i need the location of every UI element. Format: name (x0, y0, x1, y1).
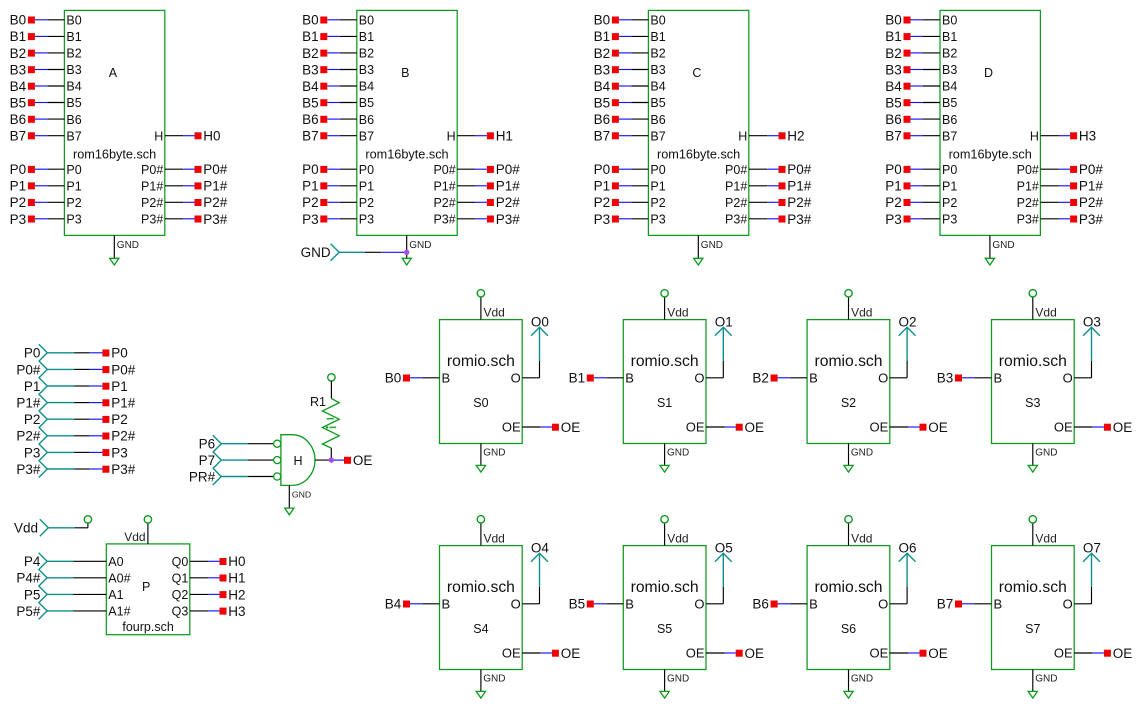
svg-text:B1: B1 (885, 29, 902, 44)
svg-text:Vdd: Vdd (667, 532, 688, 546)
Vdd symbol above block S1 (661, 290, 689, 320)
svg-text:O2: O2 (898, 315, 916, 330)
svg-text:C: C (692, 66, 701, 80)
svg-text:S1: S1 (657, 396, 672, 410)
svg-text:OE: OE (502, 646, 521, 661)
svg-text:B2: B2 (650, 47, 665, 61)
svg-text:romio.sch: romio.sch (631, 579, 699, 596)
svg-text:B: B (994, 597, 1003, 612)
net B4 into D: cue + wire into pin B4 (885, 79, 940, 94)
svg-text:OE: OE (745, 420, 765, 435)
net O3: output arrow from S3 (1074, 315, 1101, 378)
ground symbol below block S3 (1028, 444, 1057, 473)
svg-text:P3#: P3# (725, 213, 747, 227)
subcircuit block S3 (romio.sch) body (992, 320, 1075, 444)
net B3 into S3: cue + wire into pin B3 (937, 371, 992, 386)
svg-text:P1#: P1# (725, 179, 747, 193)
net P3 into D: cue + wire into pin P3 (885, 212, 940, 227)
net H1 out of B: pin wire + cue + label H1 (457, 129, 513, 144)
svg-text:H: H (738, 129, 747, 143)
svg-text:B0: B0 (359, 14, 374, 28)
net B3 into B: cue + wire into pin B3 (302, 62, 357, 77)
svg-text:P1#: P1# (1017, 179, 1039, 193)
svg-text:P2#: P2# (787, 195, 812, 210)
resistor R1 (310, 395, 339, 448)
svg-text:B7: B7 (650, 129, 665, 143)
net B3 into A: cue + wire into pin B3 (10, 62, 65, 77)
net B6 into B: cue + wire into pin B6 (302, 112, 357, 127)
subcircuit block C (rom16byte.sch) body (648, 10, 748, 235)
svg-text:H2: H2 (228, 587, 245, 602)
svg-text:P3#: P3# (496, 212, 521, 227)
svg-text:H0: H0 (228, 554, 245, 569)
svg-text:GND: GND (667, 448, 689, 459)
svg-text:P3#: P3# (787, 212, 812, 227)
svg-text:B7: B7 (302, 129, 319, 144)
Vdd symbol above R1 (328, 374, 335, 399)
net P1 into D: cue + wire into pin P1 (885, 179, 940, 194)
svg-text:H1: H1 (228, 571, 245, 586)
svg-text:P1: P1 (111, 379, 128, 394)
svg-text:H: H (293, 454, 302, 468)
net OE into S7: pin wire + cue + label OE (1074, 646, 1132, 661)
net H3 from block P: pin wire + cue + label H3 (190, 604, 246, 619)
svg-text:B6: B6 (10, 112, 27, 127)
Vdd symbol above block S0 (477, 290, 505, 320)
svg-text:B1: B1 (302, 29, 319, 44)
subcircuit block A (rom16byte.sch) body (64, 10, 164, 235)
svg-text:P3: P3 (942, 213, 957, 227)
net OE into S2: pin wire + cue + label OE (890, 420, 948, 435)
net P3 into C: cue + wire into pin P3 (594, 212, 649, 227)
net OE into S0: pin wire + cue + label OE (522, 420, 580, 435)
svg-text:GND: GND (701, 240, 723, 251)
svg-text:romio.sch: romio.sch (815, 579, 883, 596)
svg-text:O3: O3 (1083, 315, 1101, 330)
port P5# into block P (16, 602, 106, 619)
svg-text:P1: P1 (10, 179, 27, 194)
svg-text:H2: H2 (787, 129, 804, 144)
svg-text:B7: B7 (66, 129, 81, 143)
net OE into S3: pin wire + cue + label OE (1074, 420, 1132, 435)
svg-text:OE: OE (928, 420, 948, 435)
svg-text:B1: B1 (594, 29, 611, 44)
svg-text:P3: P3 (594, 212, 611, 227)
net B6 into D: cue + wire into pin B6 (885, 112, 940, 127)
net B2 into S2: cue + wire into pin B2 (752, 371, 807, 386)
net P1 into C: cue + wire into pin P1 (594, 179, 649, 194)
svg-text:A: A (109, 66, 118, 80)
svg-text:H0: H0 (203, 129, 220, 144)
svg-text:B6: B6 (66, 113, 81, 127)
svg-text:B: B (401, 66, 409, 80)
svg-text:P1#: P1# (203, 179, 228, 194)
svg-text:B2: B2 (752, 371, 769, 386)
output port P1# with net stub and cue (16, 394, 135, 411)
svg-text:P1#: P1# (787, 179, 812, 194)
port PR# into gate H (189, 468, 273, 485)
net O0: output arrow from S0 (522, 315, 549, 378)
ground symbol below block S2 (844, 444, 873, 473)
svg-text:P0#: P0# (787, 162, 812, 177)
svg-text:B6: B6 (650, 113, 665, 127)
net P1 into A: cue + wire into pin P1 (10, 179, 65, 194)
svg-text:B2: B2 (359, 47, 374, 61)
svg-text:Vdd: Vdd (851, 532, 872, 546)
subcircuit block D (rom16byte.sch) body (940, 10, 1040, 235)
svg-text:B0: B0 (650, 14, 665, 28)
net P0 into D: cue + wire into pin P0 (885, 162, 940, 177)
svg-text:O: O (694, 371, 704, 386)
svg-text:B7: B7 (942, 129, 957, 143)
net B0 into B: cue + wire into pin B0 (302, 13, 357, 28)
svg-text:P3#: P3# (111, 462, 136, 477)
svg-text:Vdd: Vdd (1035, 306, 1056, 320)
svg-text:GND: GND (1035, 448, 1057, 459)
net P1 into B: cue + wire into pin P1 (302, 179, 357, 194)
svg-text:P1#: P1# (16, 396, 41, 411)
net H0 from block P: pin wire + cue + label H0 (190, 554, 246, 569)
svg-text:P3#: P3# (433, 213, 455, 227)
svg-text:S3: S3 (1025, 396, 1040, 410)
net O6: output arrow from S6 (890, 541, 917, 604)
svg-text:P3#: P3# (141, 213, 163, 227)
net P2# out of A: pin wire + cue + label P2# (165, 195, 228, 210)
svg-text:B3: B3 (302, 62, 319, 77)
svg-text:P0#: P0# (1079, 162, 1104, 177)
svg-text:R1: R1 (310, 395, 326, 409)
net P2# out of C: pin wire + cue + label P2# (749, 195, 812, 210)
svg-text:B3: B3 (942, 63, 957, 77)
svg-text:B2: B2 (594, 46, 611, 61)
svg-text:P3: P3 (650, 213, 665, 227)
svg-text:OE: OE (502, 420, 521, 435)
svg-text:P1#: P1# (111, 396, 136, 411)
svg-text:P2: P2 (359, 196, 374, 210)
svg-text:rom16byte.sch: rom16byte.sch (365, 148, 448, 162)
net B6 into S6: cue + wire into pin B6 (752, 597, 807, 612)
net P2 into A: cue + wire into pin P2 (10, 195, 65, 210)
svg-text:P5#: P5# (16, 604, 41, 619)
svg-text:B6: B6 (359, 113, 374, 127)
svg-text:P1#: P1# (496, 179, 521, 194)
svg-text:O: O (878, 597, 888, 612)
net B1 into C: cue + wire into pin B1 (594, 29, 649, 44)
net H2 out of C: pin wire + cue + label H2 (749, 129, 805, 144)
svg-text:P0: P0 (359, 163, 374, 177)
svg-text:P2: P2 (942, 196, 957, 210)
svg-text:B: B (442, 371, 451, 386)
ground symbol below block S7 (1028, 670, 1057, 699)
net B0 into A: cue + wire into pin B0 (10, 13, 65, 28)
net B5 into C: cue + wire into pin B5 (594, 96, 649, 111)
svg-text:B4: B4 (650, 80, 665, 94)
svg-text:H: H (1030, 129, 1039, 143)
svg-text:P2#: P2# (725, 196, 747, 210)
svg-text:OE: OE (561, 646, 581, 661)
svg-text:B3: B3 (937, 371, 954, 386)
svg-text:P1#: P1# (1079, 179, 1104, 194)
svg-text:P2#: P2# (433, 196, 455, 210)
net P3# out of B: pin wire + cue + label P3# (457, 212, 520, 227)
svg-text:P2: P2 (302, 195, 319, 210)
net B4 into C: cue + wire into pin B4 (594, 79, 649, 94)
svg-text:Vdd: Vdd (484, 532, 505, 546)
svg-text:P0: P0 (942, 163, 957, 177)
net B7 into A: cue + wire into pin B7 (10, 129, 65, 144)
net OE into S6: pin wire + cue + label OE (890, 646, 948, 661)
Vdd symbol above block S6 (845, 516, 873, 546)
net OE into S4: pin wire + cue + label OE (522, 646, 580, 661)
svg-text:B3: B3 (10, 62, 27, 77)
svg-text:B0: B0 (302, 13, 319, 28)
svg-text:B7: B7 (885, 129, 902, 144)
svg-text:B5: B5 (594, 96, 611, 111)
svg-text:B0: B0 (385, 371, 402, 386)
net B0 into D: cue + wire into pin B0 (885, 13, 940, 28)
svg-text:H3: H3 (1079, 129, 1096, 144)
svg-text:B3: B3 (359, 63, 374, 77)
svg-text:B7: B7 (10, 129, 27, 144)
svg-text:B7: B7 (359, 129, 374, 143)
svg-text:P0: P0 (111, 346, 128, 361)
ground symbol below block A (110, 235, 139, 265)
svg-text:O: O (694, 597, 704, 612)
svg-text:P1: P1 (302, 179, 319, 194)
svg-text:B2: B2 (302, 46, 319, 61)
svg-text:B: B (809, 597, 818, 612)
junction at gate output / R1 (329, 457, 334, 462)
port P4# into block P (16, 569, 106, 586)
net B2 into C: cue + wire into pin B2 (594, 46, 649, 61)
Vdd symbol above block S7 (1029, 516, 1057, 546)
net H0 out of A: pin wire + cue + label H0 (165, 129, 221, 144)
output port P3# with net stub and cue (16, 461, 135, 478)
svg-text:A0#: A0# (108, 572, 130, 586)
svg-text:P0#: P0# (725, 163, 747, 177)
svg-text:romio.sch: romio.sch (999, 353, 1067, 370)
output port P0 with net stub and cue (24, 344, 128, 361)
svg-text:P2: P2 (24, 412, 41, 427)
svg-text:H3: H3 (228, 604, 245, 619)
svg-text:P3: P3 (302, 212, 319, 227)
svg-text:Vdd: Vdd (484, 306, 505, 320)
svg-text:B5: B5 (66, 96, 81, 110)
svg-text:B6: B6 (942, 113, 957, 127)
net OE into S5: pin wire + cue + label OE (706, 646, 764, 661)
net P2# out of B: pin wire + cue + label P2# (457, 195, 520, 210)
net P2# out of D: pin wire + cue + label P2# (1040, 195, 1103, 210)
net P3# out of A: pin wire + cue + label P3# (165, 212, 228, 227)
svg-text:GND: GND (667, 674, 689, 685)
svg-text:P1: P1 (594, 179, 611, 194)
svg-text:P1: P1 (24, 379, 41, 394)
svg-text:B3: B3 (650, 63, 665, 77)
svg-text:PR#: PR# (189, 469, 216, 484)
svg-text:A1#: A1# (108, 605, 130, 619)
svg-text:Q1: Q1 (172, 572, 189, 586)
svg-text:GND: GND (483, 448, 505, 459)
net B2 into B: cue + wire into pin B2 (302, 46, 357, 61)
svg-text:B: B (994, 371, 1003, 386)
svg-text:B5: B5 (359, 96, 374, 110)
svg-text:fourp.sch: fourp.sch (122, 620, 173, 634)
net O4: output arrow from S4 (522, 541, 549, 604)
svg-text:OE: OE (1054, 420, 1073, 435)
ground symbol below block S6 (844, 670, 873, 699)
svg-text:O: O (1063, 597, 1073, 612)
svg-text:P2: P2 (10, 195, 27, 210)
net P0# out of B: pin wire + cue + label P0# (457, 162, 520, 177)
svg-text:P4#: P4# (16, 571, 41, 586)
svg-text:B2: B2 (66, 47, 81, 61)
svg-text:Q0: Q0 (172, 555, 189, 569)
net O1: output arrow from S1 (706, 315, 733, 378)
svg-text:B: B (442, 597, 451, 612)
svg-text:P3: P3 (66, 213, 81, 227)
svg-text:GND: GND (409, 240, 431, 251)
svg-text:B0: B0 (942, 14, 957, 28)
svg-text:B4: B4 (885, 79, 902, 94)
svg-text:B7: B7 (937, 597, 954, 612)
net B6 into C: cue + wire into pin B6 (594, 112, 649, 127)
svg-text:P1: P1 (359, 179, 374, 193)
svg-text:S6: S6 (841, 622, 856, 636)
svg-text:B1: B1 (650, 30, 665, 44)
net B4 into S4: cue + wire into pin B4 (385, 597, 440, 612)
svg-text:H1: H1 (496, 129, 513, 144)
ground symbol below block C (694, 235, 723, 265)
net B4 into A: cue + wire into pin B4 (10, 79, 65, 94)
Vdd symbol above block S4 (477, 516, 505, 546)
output port P2# with net stub and cue (16, 427, 135, 444)
subcircuit block S0 (romio.sch) body (440, 320, 523, 444)
svg-text:P3#: P3# (1079, 212, 1104, 227)
svg-text:Vdd: Vdd (14, 521, 38, 536)
svg-text:A1: A1 (108, 588, 123, 602)
port P7 into gate H (199, 452, 274, 469)
svg-text:P7: P7 (199, 453, 216, 468)
output port P1 with net stub and cue (24, 378, 128, 395)
net B6 into A: cue + wire into pin B6 (10, 112, 65, 127)
svg-text:B: B (625, 371, 634, 386)
subcircuit block S2 (romio.sch) body (807, 320, 890, 444)
svg-text:P3#: P3# (203, 212, 228, 227)
ground symbol below block B (402, 235, 431, 265)
svg-text:GND: GND (851, 674, 873, 685)
net B1 into B: cue + wire into pin B1 (302, 29, 357, 44)
svg-text:B4: B4 (594, 79, 611, 94)
svg-text:romio.sch: romio.sch (447, 579, 515, 596)
svg-text:B5: B5 (885, 96, 902, 111)
port Vdd at left feeding Vdd rail (14, 516, 92, 537)
net P2 into C: cue + wire into pin P2 (594, 195, 649, 210)
svg-text:P0#: P0# (203, 162, 228, 177)
svg-text:B1: B1 (569, 371, 586, 386)
net B1 into D: cue + wire into pin B1 (885, 29, 940, 44)
svg-text:OE: OE (686, 646, 705, 661)
svg-text:romio.sch: romio.sch (447, 353, 515, 370)
svg-text:OE: OE (1054, 646, 1073, 661)
svg-text:P1: P1 (650, 179, 665, 193)
svg-text:GND: GND (301, 245, 331, 260)
net P0 into B: cue + wire into pin P0 (302, 162, 357, 177)
svg-text:B4: B4 (385, 597, 402, 612)
svg-text:P1: P1 (942, 179, 957, 193)
svg-text:B2: B2 (885, 46, 902, 61)
svg-text:P1#: P1# (433, 179, 455, 193)
net B7 into D: cue + wire into pin B7 (885, 129, 940, 144)
svg-text:P2#: P2# (1079, 195, 1104, 210)
net P0 into A: cue + wire into pin P0 (10, 162, 65, 177)
svg-text:Vdd: Vdd (667, 306, 688, 320)
svg-text:O: O (511, 371, 521, 386)
subcircuit block S7 (romio.sch) body (992, 546, 1075, 670)
net P1# out of B: pin wire + cue + label P1# (457, 179, 520, 194)
net O5: output arrow from S5 (706, 541, 733, 604)
svg-text:O: O (878, 371, 888, 386)
AND gate H (active-low inputs) (274, 435, 315, 486)
svg-text:GND: GND (483, 674, 505, 685)
svg-text:Vdd: Vdd (124, 530, 145, 544)
net P3 into B: cue + wire into pin P3 (302, 212, 357, 227)
output port P3 with net stub and cue (24, 444, 128, 461)
svg-text:P0: P0 (24, 346, 41, 361)
junction on GND net (404, 250, 409, 255)
svg-text:Vdd: Vdd (851, 306, 872, 320)
Vdd symbol above block P (124, 516, 151, 544)
svg-text:romio.sch: romio.sch (631, 353, 699, 370)
net B0 into C: cue + wire into pin B0 (594, 13, 649, 28)
net B5 into A: cue + wire into pin B5 (10, 96, 65, 111)
subcircuit block B (rom16byte.sch) body (357, 10, 457, 235)
svg-text:B5: B5 (302, 96, 319, 111)
svg-text:P2: P2 (594, 195, 611, 210)
port P6 into gate H (199, 435, 274, 452)
svg-text:P4: P4 (24, 554, 41, 569)
net B7 into B: cue + wire into pin B7 (302, 129, 357, 144)
net P0# out of D: pin wire + cue + label P0# (1040, 162, 1103, 177)
svg-text:P0: P0 (66, 163, 81, 177)
svg-text:P3: P3 (885, 212, 902, 227)
svg-text:S0: S0 (473, 396, 488, 410)
svg-text:P2#: P2# (203, 195, 228, 210)
svg-text:B0: B0 (66, 14, 81, 28)
svg-text:S7: S7 (1025, 622, 1040, 636)
svg-text:OE: OE (686, 420, 705, 435)
svg-text:B6: B6 (885, 112, 902, 127)
svg-text:GND: GND (292, 490, 311, 500)
svg-text:OE: OE (1113, 646, 1133, 661)
svg-text:OE: OE (353, 453, 373, 468)
svg-text:B6: B6 (752, 597, 769, 612)
svg-text:B4: B4 (66, 80, 81, 94)
svg-text:B3: B3 (66, 63, 81, 77)
svg-text:P6: P6 (199, 437, 216, 452)
svg-text:B6: B6 (302, 112, 319, 127)
svg-text:P2: P2 (885, 195, 902, 210)
svg-text:P0: P0 (650, 163, 665, 177)
svg-text:OE: OE (928, 646, 948, 661)
net P1# out of A: pin wire + cue + label P1# (165, 179, 228, 194)
svg-text:O1: O1 (715, 315, 733, 330)
net P0# out of C: pin wire + cue + label P0# (749, 162, 812, 177)
svg-text:D: D (984, 66, 993, 80)
svg-text:O: O (511, 597, 521, 612)
output port P0# with net stub and cue (16, 361, 135, 378)
svg-text:OE: OE (745, 646, 765, 661)
net B1 into A: cue + wire into pin B1 (10, 29, 65, 44)
